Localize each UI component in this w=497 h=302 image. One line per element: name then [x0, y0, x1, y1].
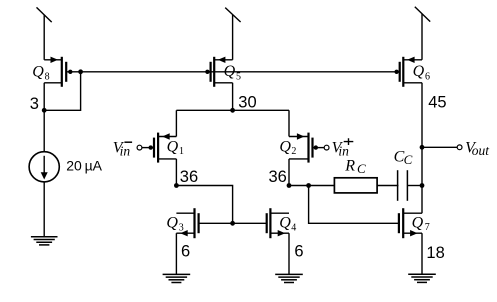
svg-text:Q: Q: [32, 63, 44, 80]
svg-text:in: in: [120, 144, 131, 159]
svg-text:Q: Q: [224, 63, 236, 80]
svg-text:1: 1: [179, 146, 184, 157]
svg-text:Q: Q: [166, 215, 178, 232]
svg-text:36: 36: [269, 168, 287, 186]
svg-text:Q: Q: [279, 215, 291, 232]
svg-text:Q: Q: [167, 139, 179, 156]
svg-text:C: C: [357, 161, 366, 176]
svg-text:Q: Q: [413, 63, 425, 80]
svg-text:6: 6: [425, 71, 430, 82]
svg-text:36: 36: [180, 168, 198, 186]
svg-text:4: 4: [291, 222, 296, 233]
svg-text:7: 7: [425, 222, 430, 233]
svg-text:Q: Q: [279, 139, 291, 156]
svg-text:6: 6: [294, 243, 303, 261]
svg-text:8: 8: [45, 71, 50, 82]
svg-text:5: 5: [236, 71, 241, 82]
svg-text:3: 3: [179, 222, 184, 233]
svg-text:out: out: [472, 143, 491, 158]
svg-text:18: 18: [426, 244, 444, 262]
svg-text:45: 45: [428, 94, 446, 112]
svg-text:C: C: [404, 152, 413, 167]
svg-text:20 µA: 20 µA: [66, 158, 102, 174]
svg-text:6: 6: [181, 243, 190, 261]
svg-text:3: 3: [30, 95, 39, 113]
svg-text:R: R: [344, 157, 355, 174]
svg-text:Q: Q: [412, 215, 424, 232]
svg-text:2: 2: [291, 146, 296, 157]
svg-text:30: 30: [238, 94, 256, 112]
